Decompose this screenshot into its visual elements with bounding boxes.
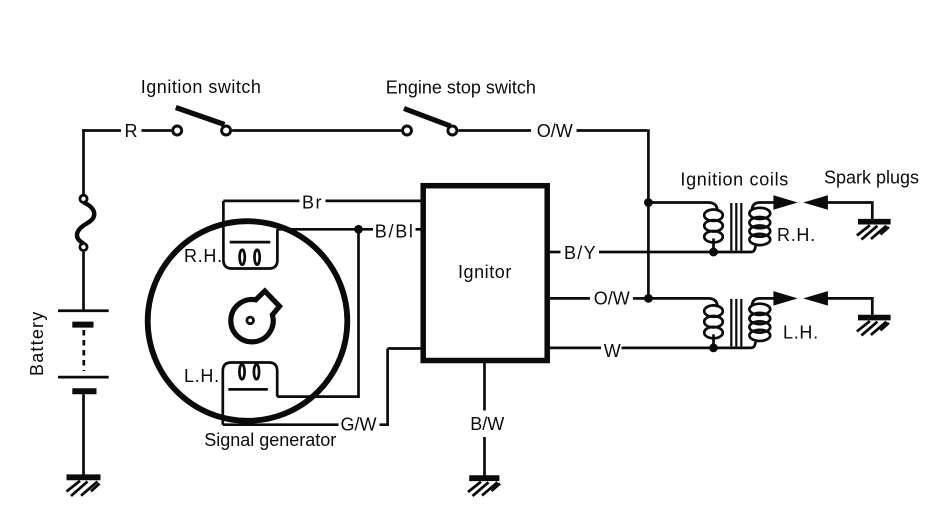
svg-text:Br: Br bbox=[302, 192, 323, 212]
svg-text:B/Y: B/Y bbox=[564, 243, 597, 263]
svg-text:Ignition switch: Ignition switch bbox=[141, 77, 262, 97]
svg-text:Battery: Battery bbox=[27, 311, 47, 376]
svg-text:Ignition coils: Ignition coils bbox=[680, 170, 789, 190]
svg-text:B/W: B/W bbox=[470, 414, 504, 434]
svg-text:Ignitor: Ignitor bbox=[458, 262, 512, 282]
svg-text:L.H.: L.H. bbox=[783, 323, 819, 343]
svg-text:O/W: O/W bbox=[594, 289, 630, 309]
svg-text:W: W bbox=[604, 341, 621, 361]
svg-text:G/W: G/W bbox=[341, 415, 377, 435]
svg-text:R.H.: R.H. bbox=[777, 225, 816, 245]
svg-text:L.H.: L.H. bbox=[184, 366, 220, 386]
svg-text:Signal generator: Signal generator bbox=[204, 430, 336, 450]
svg-text:R.H.: R.H. bbox=[184, 246, 223, 266]
svg-text:B/Bl: B/Bl bbox=[375, 221, 415, 241]
svg-text:O/W: O/W bbox=[537, 121, 573, 141]
svg-text:Engine stop switch: Engine stop switch bbox=[386, 78, 536, 98]
svg-text:R: R bbox=[125, 121, 138, 141]
svg-text:Spark plugs: Spark plugs bbox=[824, 168, 919, 188]
